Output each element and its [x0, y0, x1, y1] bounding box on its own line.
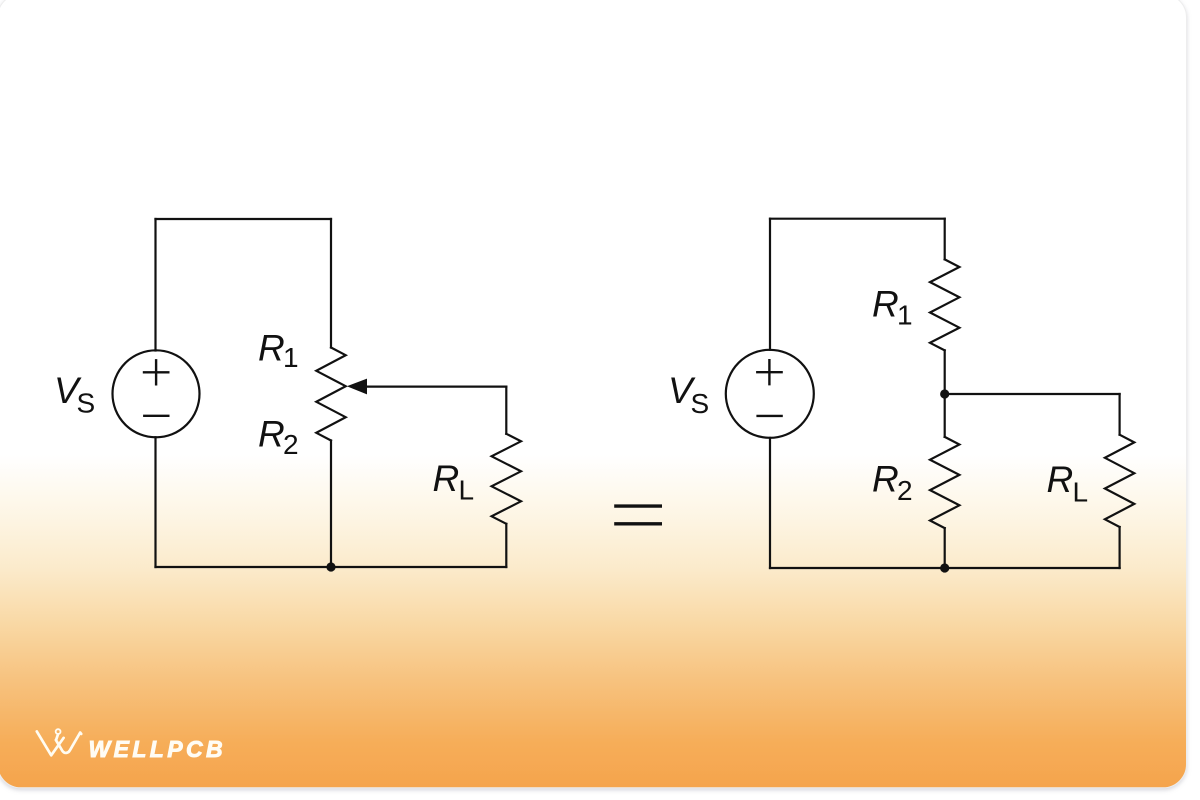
wire: wiper horizontal to RL	[358, 386, 506, 388]
svg-text:2: 2	[897, 475, 913, 506]
svg-text:R: R	[872, 459, 899, 500]
potentiometer wiper arrow	[347, 379, 367, 395]
svg-text:L: L	[1073, 477, 1089, 508]
junction dot: right circuit bottom node	[940, 563, 949, 572]
wire: node A horizontal to RL (right)	[945, 393, 1120, 395]
WELLPCB logo mark	[37, 729, 81, 755]
resistor R1 (right) zigzag body	[930, 259, 959, 350]
plus sign inside right source	[757, 360, 781, 384]
junction dot: node A (right circuit mid)	[940, 389, 949, 398]
voltage source VS circle (right)	[726, 350, 814, 438]
svg-text:WELLPCB: WELLPCB	[89, 736, 227, 762]
wire: RL (right) upper lead	[1118, 394, 1120, 435]
wire: right circuit bottom	[770, 567, 1120, 569]
wire: potentiometer lower lead	[330, 441, 332, 568]
wire: left circuit upper-left vertical	[154, 219, 156, 351]
junction dot: left circuit bottom node	[326, 562, 335, 571]
svg-text:S: S	[77, 388, 96, 419]
svg-text:R: R	[1047, 459, 1074, 500]
svg-text:R: R	[872, 283, 899, 324]
resistor RL (left) zigzag body	[492, 434, 521, 524]
svg-text:1: 1	[897, 300, 913, 331]
wire: left circuit bottom	[156, 566, 507, 568]
svg-text:R: R	[433, 458, 460, 499]
wire: left circuit top	[156, 218, 332, 220]
equals sign between circuits	[614, 506, 662, 524]
plus sign inside left source	[144, 360, 168, 384]
wire: R1 (right) upper lead	[944, 219, 946, 260]
wire: R1 to node A	[944, 350, 946, 437]
minus sign inside right source	[758, 415, 782, 417]
wire: left circuit lower-left vertical	[154, 437, 156, 567]
voltage source VS circle (left)	[113, 350, 200, 437]
svg-text:S: S	[691, 388, 710, 419]
wire: right circuit lower-left vertical	[769, 438, 771, 568]
potentiometer R1/R2 zigzag body	[316, 348, 345, 441]
wire: right circuit upper-left vertical	[769, 219, 771, 350]
minus sign inside left source	[144, 415, 168, 417]
svg-text:R: R	[258, 414, 285, 455]
wire: RL (right) lower lead	[1118, 527, 1120, 568]
wire: left circuit right branch upper lead	[330, 219, 332, 348]
wire: R2 (right) lower lead	[944, 528, 946, 568]
svg-text:L: L	[459, 475, 475, 506]
resistor R2 (right) zigzag body	[930, 437, 959, 528]
svg-text:2: 2	[283, 429, 299, 460]
wire: right circuit top	[770, 218, 945, 220]
resistor RL (right) zigzag body	[1105, 435, 1134, 527]
wire: RL (left) lower lead	[505, 524, 507, 567]
wire: RL (left) upper lead	[505, 387, 507, 434]
svg-text:1: 1	[283, 342, 299, 373]
svg-text:R: R	[258, 327, 285, 368]
